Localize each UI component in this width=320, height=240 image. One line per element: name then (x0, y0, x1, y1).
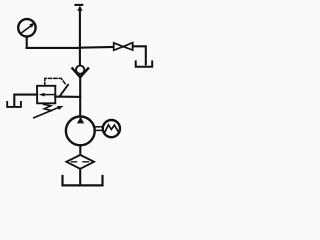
wire (valve to tank drop) (133, 46, 146, 64)
filter F1 (66, 155, 94, 169)
wire (gauge stem) (26, 37, 28, 48)
wire (branch to shut-off valve) (80, 46, 114, 49)
tank T1 (top right reservoir) (136, 61, 153, 66)
relief valve RV1 spring (44, 104, 52, 110)
wire (filter suction into tank) (79, 169, 81, 184)
wire (pump suction to filter) (79, 145, 81, 155)
relief valve RV1 flow arrow (44, 94, 54, 96)
relief valve RV1 adjustment arrow (34, 108, 58, 118)
relief valve RV1 spring slash (59, 85, 68, 97)
wire (gauge branch to main line) (27, 47, 80, 49)
relief valve RV1 (square body) (37, 86, 55, 104)
tank T2 (relief drain reservoir) (7, 102, 21, 107)
wire (relief inlet from main line) (55, 96, 80, 98)
check valve CV1 (ball in seat) (72, 48, 88, 77)
shut-off valve V1 (114, 43, 133, 51)
relief valve RV1 pilot line (dashed) (45, 78, 66, 85)
wire (main pressure line arrow to system) (79, 10, 81, 48)
electric motor M1 (103, 120, 120, 137)
node P (system outlet bar at top) (76, 4, 83, 6)
tank T3 (main reservoir) (63, 176, 103, 185)
pressure gauge G1 (18, 19, 35, 36)
wire (relief outlet to tank) (14, 95, 37, 106)
pump P1 (66, 116, 95, 145)
wire (main line check valve to pump) (79, 77, 81, 118)
shaft (pump to motor coupling) (95, 126, 103, 128)
